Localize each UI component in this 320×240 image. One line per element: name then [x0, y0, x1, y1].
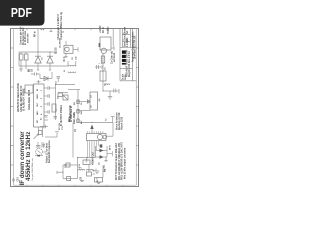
svg-text:REG: REG — [69, 117, 71, 122]
svg-text:Sheffield S10 3TA UK: Sheffield S10 3TA UK — [134, 35, 137, 59]
svg-text:none: none — [125, 74, 127, 80]
svg-text:BD: BD — [127, 37, 129, 41]
svg-text:Change pin 4 to BNC if: Change pin 4 to BNC if — [57, 14, 60, 39]
svg-text:CAN BE OMITTED IF 5V: CAN BE OMITTED IF 5V — [20, 85, 23, 112]
svg-text:1.4.12: 1.4.12 — [126, 40, 129, 47]
svg-text:NOT TO Desired Output FRE ADJ: NOT TO Desired Output FRE ADJ — [115, 143, 118, 180]
svg-text:att: att — [98, 162, 101, 165]
svg-text:Date: Date — [124, 41, 127, 47]
svg-text:Drawn: Drawn — [125, 26, 127, 34]
svg-text:FRQ +LOW ERROR LTS DAC KITS: FRQ +LOW ERROR LTS DAC KITS — [121, 142, 124, 180]
svg-text:ATT: ATT — [96, 177, 99, 182]
svg-text:NC: NC — [37, 119, 39, 123]
svg-text:Q1 2N390: Q1 2N390 — [59, 37, 61, 48]
svg-text:GND: GND — [37, 94, 39, 99]
svg-text:bandwidth response: bandwidth response — [48, 140, 51, 163]
svg-text:March 2012: March 2012 — [121, 116, 123, 129]
svg-text:FRL AD FREQNCY ORIGINAL 455: FRL AD FREQNCY ORIGINAL 455 — [118, 142, 121, 180]
svg-text:required 455kHz from rig: required 455kHz from rig — [60, 11, 63, 39]
svg-text:BFO: BFO — [110, 145, 112, 150]
svg-text:IF OUTPUT 455kHz: IF OUTPUT 455kHz — [60, 104, 63, 126]
svg-text:Dwg No 104 Rev 2.0 SA: Dwg No 104 Rev 2.0 SA — [128, 51, 131, 77]
svg-text:R7 10k: R7 10k — [59, 122, 61, 130]
svg-text:Adjust L1 for best: Adjust L1 for best — [46, 143, 49, 163]
svg-text:Check: Check — [125, 33, 127, 41]
svg-text:SA: SA — [126, 30, 129, 34]
svg-text:see note: see note — [26, 33, 29, 43]
svg-text:adj: adj — [105, 169, 107, 172]
svg-text:D1 D2: D1 D2 — [56, 47, 58, 54]
svg-text:LM78L05 5V REGULATOR: LM78L05 5V REGULATOR — [17, 83, 20, 112]
svg-text:+13.8V: +13.8V — [100, 25, 102, 33]
svg-text:set level: set level — [113, 52, 116, 62]
svg-text:supply: supply — [108, 26, 110, 34]
svg-text:RF in: RF in — [35, 31, 37, 37]
svg-text:DC in: DC in — [103, 26, 105, 33]
svg-text:kHz 12 kHz output converter: kHz 12 kHz output converter — [123, 148, 126, 179]
svg-text:PDF: PDF — [11, 5, 32, 20]
svg-text:AVAILABLE 78L05: AVAILABLE 78L05 — [28, 89, 31, 110]
svg-text:You get 1.08 455kHz out: You get 1.08 455kHz out — [31, 158, 34, 181]
svg-text:OUT: OUT — [37, 102, 39, 107]
svg-text:Scale: Scale — [123, 73, 125, 80]
